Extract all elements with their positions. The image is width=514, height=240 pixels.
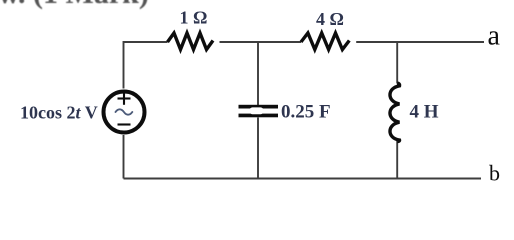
- svg-text:4 Ω: 4 Ω: [316, 9, 344, 29]
- svg-text:w. (1 Mark): w. (1 Mark): [0, 0, 149, 10]
- svg-text:1 Ω: 1 Ω: [180, 8, 208, 28]
- svg-text:4 H: 4 H: [410, 102, 439, 123]
- svg-text:0.25 F: 0.25 F: [281, 102, 331, 123]
- svg-text:b: b: [489, 161, 500, 186]
- svg-text:10cos 2t V: 10cos 2t V: [20, 103, 98, 123]
- svg-text:a: a: [488, 20, 501, 51]
